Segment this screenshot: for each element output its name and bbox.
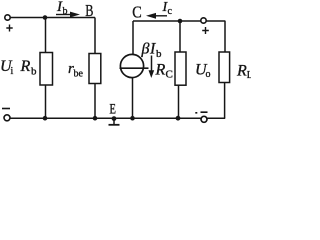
label R_L: [236, 63, 253, 82]
arrow I_c: [146, 13, 167, 19]
arrow I_b: [56, 12, 80, 18]
junction dot R_b bottom: [43, 116, 48, 121]
svg-text:B: B: [85, 1, 93, 20]
junction dot R_C top: [178, 19, 183, 24]
wire R_b bottom: [45, 85, 47, 118]
plus sign output: [202, 27, 209, 34]
svg-text:c: c: [168, 6, 173, 17]
minus sign output: [195, 111, 207, 114]
resistor R_L: [219, 52, 230, 83]
svg-text:b: b: [31, 66, 37, 78]
node B junction dot (R_b top): [43, 15, 48, 20]
current source U1 circle: [120, 54, 143, 77]
terminal output -: [201, 116, 207, 122]
resistor r_be: [89, 54, 101, 84]
svg-text:b: b: [63, 6, 68, 17]
wire R_C top: [179, 21, 181, 52]
resistor R_C: [175, 52, 186, 85]
svg-text:be: be: [74, 69, 84, 80]
svg-text:b: b: [156, 48, 162, 60]
terminal input +: [5, 15, 10, 20]
svg-text:C: C: [166, 69, 173, 81]
wire R_L bottom: [224, 83, 226, 119]
junction dot current source bottom: [130, 116, 135, 121]
label R_C: [155, 62, 173, 81]
svg-text:β: β: [141, 41, 150, 58]
wire R_L top corner: [224, 21, 226, 52]
svg-text:i: i: [11, 66, 14, 77]
svg-text:o: o: [206, 69, 211, 80]
label I_b: [56, 0, 68, 17]
terminal output +: [201, 18, 206, 23]
label U_o: [195, 62, 211, 81]
resistor R_b: [40, 53, 53, 86]
label U_i: [0, 58, 14, 77]
wire R_b top: [45, 18, 47, 53]
wire r_be bottom: [94, 84, 96, 118]
current source bar: [120, 67, 149, 69]
label R_b: [20, 58, 38, 78]
wire B corner down to r_be: [94, 18, 96, 54]
wire current source top: [132, 21, 134, 55]
junction dot R_C bottom: [176, 116, 181, 121]
svg-text:C: C: [132, 3, 142, 22]
plus sign input: [6, 25, 12, 32]
label I_c: [162, 0, 173, 17]
junction dot ground E: [112, 116, 117, 121]
svg-text:R: R: [236, 63, 247, 80]
wire right rail C node: [133, 20, 225, 22]
arrow beta I_b direction: [149, 56, 155, 79]
wire top-left rail: [10, 17, 95, 19]
svg-text:E: E: [109, 102, 116, 118]
label r_be: [68, 61, 84, 80]
label beta I_b: [141, 41, 163, 61]
wire current source bottom: [132, 78, 134, 119]
wire R_C bottom: [178, 85, 180, 118]
ground: [109, 119, 120, 125]
svg-text:R: R: [20, 58, 31, 75]
svg-text:R: R: [155, 62, 166, 79]
terminal input -: [4, 115, 10, 121]
minus sign input: [2, 108, 10, 110]
wire bottom rail: [10, 117, 225, 119]
svg-text:L: L: [247, 70, 251, 81]
svg-text:I: I: [149, 41, 156, 58]
junction dot r_be bottom: [93, 116, 98, 121]
